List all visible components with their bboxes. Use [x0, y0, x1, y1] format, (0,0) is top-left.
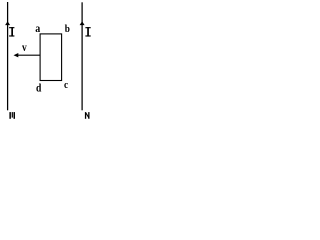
label b (top-right corner) [65, 23, 70, 35]
loop abcd (rectangular conducting loop) [40, 34, 62, 81]
current arrow I on left wire [5, 21, 10, 25]
label N [85, 112, 90, 119]
wire M (left straight conductor) [7, 2, 9, 110]
label d (bottom-left corner) [36, 83, 41, 95]
label v (velocity) [22, 41, 27, 54]
label I (left current) [9, 27, 14, 36]
label I (right current) [85, 27, 90, 36]
svg-text:b: b [65, 23, 70, 35]
label a (top-left corner) [35, 22, 40, 35]
velocity arrow v (loop moving left) [14, 53, 41, 57]
svg-text:a: a [35, 22, 40, 35]
label M [9, 112, 15, 119]
svg-text:d: d [36, 83, 41, 95]
current arrow I on right wire [80, 21, 85, 25]
wire N (right straight conductor) [81, 2, 83, 110]
label c (bottom-right corner) [64, 79, 69, 91]
svg-text:c: c [64, 79, 69, 91]
svg-text:v: v [22, 41, 27, 54]
